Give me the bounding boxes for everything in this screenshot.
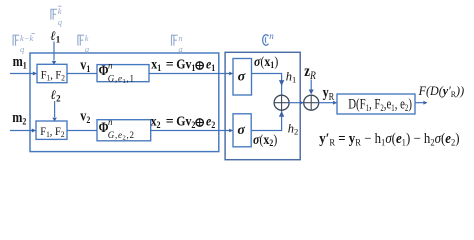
- adder 2 (channel noise adder): [304, 95, 319, 110]
- field label Fq^(k-kbar): [13, 33, 35, 54]
- svg-text:G,e: G,e: [108, 73, 123, 83]
- field label Cn (complex): [263, 31, 275, 45]
- wire sigma1 out to adder1 (h1 branch): [252, 74, 285, 96]
- box sigma 2: [233, 114, 251, 147]
- svg-text:k: k: [58, 6, 62, 16]
- svg-text:σ: σ: [237, 123, 245, 138]
- svg-text:σ: σ: [238, 69, 246, 84]
- label m2: [12, 109, 26, 127]
- svg-text:=: =: [166, 115, 174, 130]
- wire v2: [67, 130, 97, 132]
- wire v1: [67, 73, 97, 75]
- label yR: [323, 84, 335, 102]
- svg-text:n: n: [108, 117, 113, 127]
- svg-text:q: q: [58, 17, 63, 27]
- svg-text:1: 1: [123, 78, 126, 85]
- label equation x2 = Gv2 + e2: [151, 113, 216, 130]
- svg-text:2: 2: [123, 135, 126, 142]
- svg-text:=: =: [166, 58, 174, 73]
- wire adder1 to adder2: [289, 101, 304, 105]
- svg-text:G,e: G,e: [108, 130, 123, 140]
- adder 1 (h1+h2 combiner): [274, 95, 289, 110]
- field label Fq^n: [171, 33, 183, 54]
- svg-text:y′R = yR − h1σ(e1) − h2σ(e2): y′R = yR − h1σ(e1) − h2σ(e2): [319, 130, 459, 147]
- outer encoder box (left): [30, 53, 219, 152]
- label zR: [304, 63, 316, 83]
- svg-text:n: n: [269, 31, 274, 41]
- field label Fq^k: [77, 33, 89, 54]
- svg-text:n: n: [108, 61, 113, 71]
- label m1: [13, 53, 27, 71]
- wire yR adder2 to decoder: [319, 101, 338, 105]
- svg-text:,2: ,2: [127, 130, 135, 140]
- box F1,F2 encoder 2: [36, 121, 67, 139]
- box decoder D(F1,F2,e1,e2): [337, 94, 415, 114]
- wire x2 to sigma2: [151, 129, 234, 133]
- wire l2 into F1,F2: [52, 101, 57, 121]
- label sigma(x1): [254, 54, 278, 70]
- box F1,F2 encoder 1: [37, 64, 67, 82]
- svg-text:k−k: k−k: [20, 33, 34, 43]
- svg-text:,1: ,1: [127, 73, 135, 83]
- svg-text:F(D(y′R)): F(D(y′R)): [418, 83, 464, 98]
- label v2: [80, 108, 90, 126]
- label equation x1 = Gv1 + e1: [151, 56, 215, 73]
- label sigma(x2): [253, 132, 277, 148]
- wire l1 into F1,F2: [52, 42, 57, 65]
- label v1: [80, 57, 90, 75]
- label F(D(y'R)) output: [418, 83, 464, 98]
- svg-text:σ(x2): σ(x2): [253, 132, 277, 148]
- wire m2 input: [10, 129, 36, 133]
- svg-text:q: q: [85, 44, 90, 54]
- bottom equation y'R = yR - h1 sigma(e1) - h2 sigma(e2): [319, 130, 459, 147]
- svg-text:σ(x1): σ(x1): [254, 54, 278, 70]
- svg-text:k: k: [85, 33, 89, 43]
- svg-text:D(F1, F2,e1, e2): D(F1, F2,e1, e2): [348, 95, 412, 114]
- wire m1 input: [10, 72, 37, 76]
- box Phi_G,e1,1 encoder 1: [97, 61, 149, 85]
- box Phi_G,e2,2 encoder 2: [97, 117, 151, 141]
- field label Fq^kbar (above l1): [50, 6, 62, 27]
- svg-text:n: n: [178, 33, 182, 43]
- box sigma 1: [233, 59, 252, 96]
- outer channel box Cn (middle): [225, 52, 300, 159]
- wire x1 to sigma1: [149, 72, 233, 76]
- wire decoder output: [415, 101, 428, 105]
- wire zR into adder2: [309, 80, 314, 95]
- wire sigma2 out to adder1 (h2 branch): [251, 110, 284, 130]
- svg-text:q: q: [178, 44, 183, 54]
